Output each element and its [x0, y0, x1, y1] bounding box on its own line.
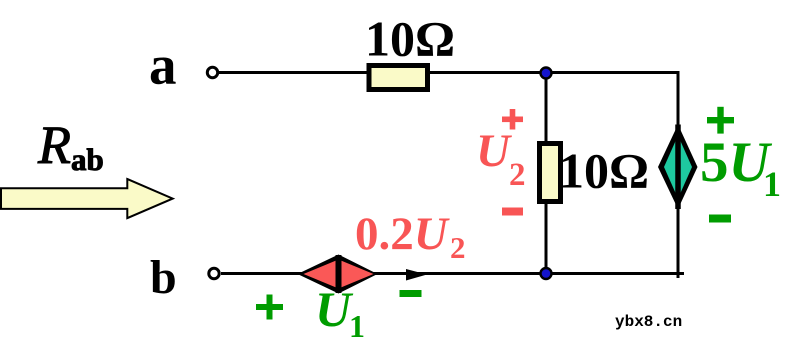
svg-text:2: 2: [450, 230, 466, 265]
dependent source 5U1 (diamond): [658, 125, 698, 210]
wire top: [219, 71, 678, 74]
svg-text:a: a: [149, 35, 177, 96]
label minus of U1: [400, 290, 422, 297]
svg-text:0.2U: 0.2U: [355, 208, 450, 260]
node top: [541, 68, 552, 79]
svg-text:1: 1: [763, 164, 781, 204]
label plus of U1: [256, 295, 283, 320]
arrowhead on bottom wire: [406, 269, 427, 281]
divider line of 0.2U2 source: [336, 255, 342, 293]
arrow Rab: [1, 179, 173, 218]
label minus of 5U1: [709, 215, 731, 223]
svg-text:Rab: Rab: [37, 115, 104, 177]
divider line of 5U1 source: [675, 125, 681, 210]
svg-text:b: b: [150, 251, 177, 304]
svg-text:5U: 5U: [700, 131, 773, 194]
wire right vertical: [677, 71, 680, 278]
node bottom: [541, 268, 552, 279]
svg-text:10Ω: 10Ω: [365, 10, 455, 66]
terminal a: [207, 67, 217, 77]
wire bottom: [221, 272, 684, 275]
dependent source 0.2U2 (red diamond): [298, 255, 378, 294]
terminal b: [209, 268, 219, 278]
wire middle vertical: [545, 73, 548, 273]
label minus of U2: [502, 208, 523, 216]
svg-text:U: U: [476, 125, 512, 177]
label plus of 5U1: [707, 107, 734, 134]
svg-text:ybx8.cn: ybx8.cn: [615, 313, 682, 331]
resistor R2 10ohm (middle): [540, 144, 561, 202]
svg-text:1: 1: [349, 308, 365, 344]
resistor R1 10ohm (top): [369, 66, 428, 90]
svg-text:10Ω: 10Ω: [559, 143, 649, 199]
label plus of U2: [502, 109, 523, 130]
svg-text:2: 2: [509, 157, 526, 193]
